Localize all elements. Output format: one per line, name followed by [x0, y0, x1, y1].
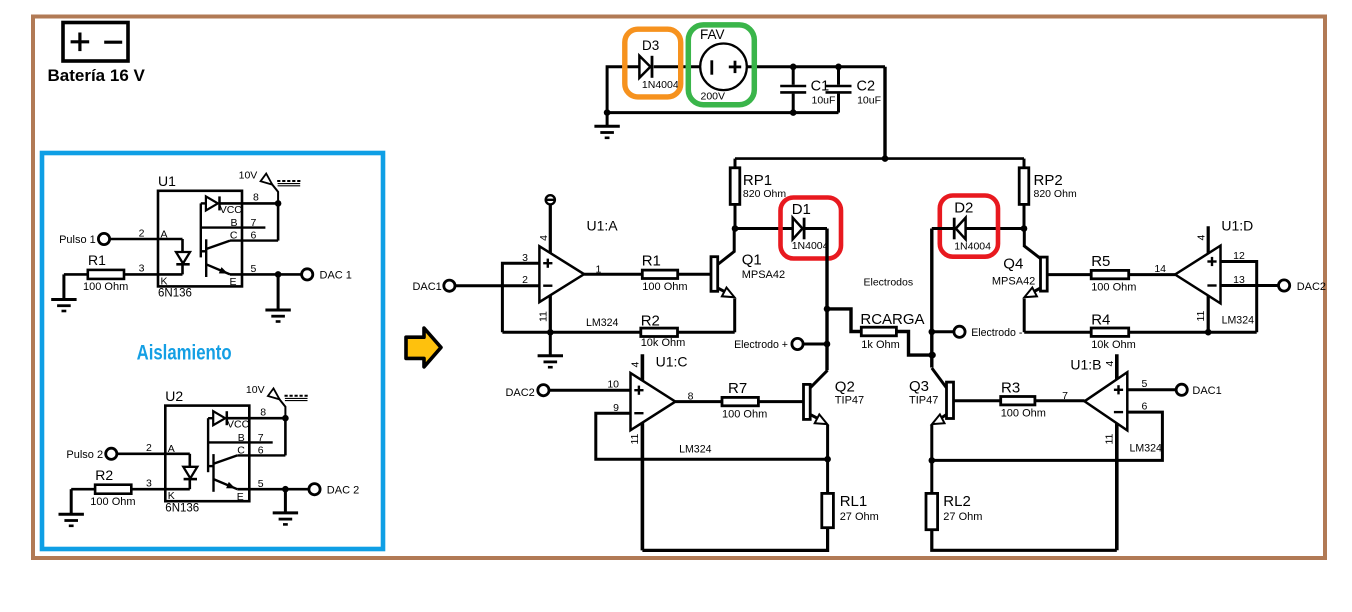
wire Q1 collector up: [733, 229, 736, 253]
svg-text:7: 7: [1062, 390, 1068, 402]
svg-text:8: 8: [260, 407, 266, 419]
10V supply flag U1: [261, 174, 273, 185]
wire Q4 to R5: [1047, 273, 1091, 276]
svg-text:C2: C2: [857, 78, 876, 94]
svg-text:U1:A: U1:A: [587, 218, 619, 234]
FAV plus mark: [729, 61, 741, 73]
ground supply: [594, 113, 619, 138]
svg-text:A: A: [168, 443, 175, 455]
svg-text:100 Ohm: 100 Ohm: [90, 496, 135, 508]
svg-text:A: A: [161, 228, 168, 240]
junction pin5 U1: [275, 271, 282, 278]
svg-text:U1: U1: [158, 173, 176, 189]
svg-text:Pulso 2: Pulso 2: [66, 449, 103, 461]
svg-text:1N4004: 1N4004: [792, 240, 829, 252]
op-amp U1:D: [1175, 246, 1220, 304]
emitter arrow U2: [226, 482, 235, 489]
wire 10V to pin8 U2: [279, 398, 286, 418]
node Electrodo +: [792, 338, 803, 349]
wire power pins U1:D: [1207, 226, 1210, 332]
wire inner left U1: [200, 203, 202, 257]
wire R2 to Q1 emitter: [678, 331, 735, 334]
arrow marker: [406, 328, 441, 367]
double line 10V U1: [278, 184, 301, 186]
resistor RP2: [1019, 168, 1029, 205]
double line 10V U2: [285, 398, 308, 400]
wire to D1: [735, 227, 793, 230]
resistor RL2: [926, 493, 938, 529]
junction U1:A ground: [547, 329, 554, 336]
highlight box FAV: [688, 25, 754, 105]
svg-text:7: 7: [258, 432, 264, 444]
wire R2 to ground: [71, 488, 95, 491]
svg-text:10uF: 10uF: [857, 95, 881, 107]
wire power pins U1:C: [641, 354, 645, 550]
wire supply bottom: [607, 111, 838, 114]
svg-text:820 Ohm: 820 Ohm: [743, 188, 786, 200]
wire feedback U1:C: [596, 413, 828, 459]
wire Q2 emitter down: [826, 425, 829, 459]
svg-text:DAC1: DAC1: [412, 281, 441, 293]
Q2 emitter arrow: [815, 414, 828, 424]
svg-text:100 Ohm: 100 Ohm: [722, 409, 767, 421]
wire DAC2 to pin10: [549, 389, 631, 392]
svg-text:3: 3: [146, 478, 152, 490]
wire R3 to U1:B: [1035, 399, 1085, 402]
wire supply left: [607, 67, 639, 113]
wire pin6 U2: [237, 454, 285, 456]
wire top rail: [735, 157, 1024, 160]
svg-text:100 Ohm: 100 Ohm: [1001, 408, 1046, 420]
junction U1:D pin11: [1205, 329, 1212, 336]
junction rail: [882, 155, 889, 162]
node DAC2 output: [1279, 280, 1290, 291]
U1:A + input: [543, 259, 552, 268]
svg-text:8: 8: [253, 192, 259, 204]
svg-text:C: C: [230, 230, 238, 242]
svg-text:LM324: LM324: [1130, 442, 1162, 454]
phototransistor emitter U2: [214, 479, 238, 489]
svg-text:27 Ohm: 27 Ohm: [840, 511, 879, 523]
svg-text:K: K: [168, 490, 175, 502]
U1:D + input: [1207, 257, 1216, 266]
wire pin2 U1: [110, 238, 183, 241]
ground DAC 1: [265, 274, 290, 321]
wire R1 to Q1: [678, 273, 711, 276]
wire Q4 collector up: [1023, 229, 1026, 248]
svg-text:3: 3: [522, 252, 528, 264]
svg-text:6N136: 6N136: [165, 502, 199, 514]
svg-text:U1:C: U1:C: [656, 353, 688, 369]
resistor R7: [722, 397, 758, 405]
svg-text:Q2: Q2: [835, 379, 855, 396]
transistor Q3 base bar: [947, 382, 954, 418]
battery - terminal: [104, 41, 122, 44]
svg-text:TIP47: TIP47: [835, 395, 864, 407]
svg-text:Aislamiento: Aislamiento: [137, 341, 232, 364]
junction Q2 emitter: [824, 456, 831, 463]
svg-text:Batería 16 V: Batería 16 V: [48, 66, 146, 85]
Q4 collector: [1024, 246, 1040, 259]
node Electrodo -: [954, 326, 965, 337]
wire Q3 to R3: [954, 399, 1001, 402]
resistor R5: [1091, 270, 1129, 278]
svg-text:4: 4: [630, 362, 642, 368]
wire to vcc diode U2: [208, 417, 213, 419]
junction supply ground: [604, 109, 611, 116]
transistor Q2 base bar: [804, 384, 811, 419]
junction Electrodo-: [929, 329, 936, 336]
svg-text:200V: 200V: [701, 91, 726, 103]
FAV minus mark: [710, 60, 713, 74]
wire LED anode U2: [189, 454, 192, 467]
battery symbol box: [63, 23, 128, 62]
Q1 emitter arrow: [722, 288, 735, 298]
svg-text:100 Ohm: 100 Ohm: [642, 281, 687, 293]
svg-text:10V: 10V: [246, 384, 265, 396]
wire Q4 emitter to R4: [1024, 331, 1091, 334]
wire DAC1 to pin2: [455, 284, 539, 287]
op-amp U1:B: [1085, 372, 1128, 430]
U1:C + input: [634, 386, 643, 395]
wire bottom rail left: [642, 528, 827, 551]
capacitor C1: [780, 67, 806, 113]
svg-text:11: 11: [1195, 310, 1207, 321]
svg-text:4: 4: [1195, 235, 1207, 241]
junction C1 top: [790, 64, 797, 71]
battery + terminal: [71, 33, 90, 52]
svg-text:10uF: 10uF: [812, 95, 836, 107]
svg-text:E: E: [237, 491, 244, 503]
svg-text:10k Ohm: 10k Ohm: [1091, 339, 1136, 351]
node DAC1 output: [1176, 384, 1187, 395]
svg-text:6: 6: [251, 230, 257, 242]
wire pin3 U1: [124, 273, 183, 276]
Q3 emitter arrow: [932, 414, 945, 424]
wire R7 to Q2: [758, 400, 803, 403]
svg-text:12: 12: [1233, 250, 1245, 262]
op-amp U1:A: [539, 246, 584, 302]
wire pin6 feedback U1:B: [932, 412, 1163, 460]
svg-text:7: 7: [251, 217, 257, 229]
highlight box D2: [940, 196, 998, 257]
wire pin13 U1:D: [1221, 284, 1279, 287]
diode VCC U2: [213, 411, 227, 425]
junction RCARGA to Q3: [929, 352, 936, 359]
wire pin7 U2: [208, 441, 273, 443]
wire LED cathode U2: [189, 479, 192, 489]
svg-text:13: 13: [1233, 274, 1245, 286]
diode VCC U1: [206, 196, 220, 210]
wire D1 out: [805, 227, 827, 230]
svg-text:11: 11: [1104, 433, 1116, 444]
Q2 emitter: [810, 415, 824, 422]
U1:D - input: [1207, 284, 1216, 286]
wire to RL2: [930, 460, 933, 493]
svg-text:9: 9: [613, 402, 619, 414]
junction C1 bottom: [790, 109, 797, 116]
resistor RL1: [822, 493, 834, 527]
svg-text:27 Ohm: 27 Ohm: [943, 511, 982, 523]
svg-text:U2: U2: [165, 388, 183, 404]
svg-text:RP1: RP1: [743, 172, 772, 189]
wire D3 to FAV: [654, 65, 702, 68]
diode D3: [639, 56, 652, 78]
wire D2 to RP2: [955, 227, 1024, 230]
svg-text:5: 5: [258, 478, 264, 490]
svg-text:10V: 10V: [239, 169, 258, 181]
svg-text:U1:D: U1:D: [1221, 218, 1253, 234]
svg-text:RL2: RL2: [943, 493, 971, 510]
emitter arrow U1: [219, 267, 228, 274]
svg-text:U1:B: U1:B: [1070, 357, 1101, 373]
junction pin5 U2: [282, 486, 289, 493]
svg-text:6N136: 6N136: [158, 288, 192, 300]
ground U1:A: [538, 332, 563, 367]
diode D1: [793, 218, 804, 240]
wire LED anode U1: [181, 239, 184, 252]
svg-text:Pulso 1: Pulso 1: [59, 234, 96, 246]
Q3 collector: [932, 368, 947, 388]
wire Q1 emitter down: [733, 299, 736, 333]
svg-text:2: 2: [139, 227, 145, 239]
svg-text:B: B: [230, 217, 237, 229]
source FAV circle: [700, 44, 747, 91]
svg-text:14: 14: [1154, 263, 1166, 275]
svg-text:100 Ohm: 100 Ohm: [83, 281, 128, 293]
phototransistor collector U2: [214, 455, 238, 463]
Q4 emitter: [1028, 288, 1041, 295]
wire RP2 to junction: [1023, 204, 1026, 228]
aislamiento boundary box: [42, 153, 383, 549]
wire Q3 emitter down: [930, 425, 933, 460]
wire Electrodo-: [932, 330, 954, 333]
highlight box D3: [625, 29, 681, 97]
junction Q1 collector: [732, 225, 739, 232]
resistor R1: [88, 270, 124, 279]
wire base connect U2: [208, 465, 213, 467]
ground R1: [51, 274, 76, 311]
wire R5 to U1:D: [1129, 273, 1175, 276]
svg-text:4: 4: [538, 235, 550, 241]
Q1 emitter: [718, 288, 731, 295]
svg-text:11: 11: [537, 311, 549, 322]
svg-text:Electrodo -: Electrodo -: [971, 327, 1023, 339]
svg-text:5: 5: [1142, 378, 1148, 390]
resistor R1 main: [642, 270, 677, 278]
wire to RL1: [826, 459, 829, 493]
wire pin8 U2: [227, 417, 285, 420]
svg-text:MPSA42: MPSA42: [742, 269, 785, 281]
U1:C - input: [634, 412, 643, 414]
svg-text:Q4: Q4: [1003, 256, 1023, 273]
svg-text:2: 2: [146, 442, 152, 454]
phototransistor emitter U1: [206, 264, 230, 274]
wire RCARGA right: [896, 332, 932, 356]
junction Q4 collector: [1021, 225, 1028, 232]
wire rail to RP1: [734, 159, 737, 168]
wire pin3 feedback U1:A: [502, 263, 539, 332]
svg-text:Q3: Q3: [909, 378, 929, 395]
svg-text:RP2: RP2: [1034, 172, 1063, 189]
U1:B - input: [1114, 411, 1123, 413]
wire RP1 to junction: [734, 204, 737, 228]
svg-text:6: 6: [1142, 401, 1148, 413]
node Pulso 1: [98, 233, 109, 244]
wire rail to RP2: [1023, 159, 1026, 168]
wire 10V to pin8 U1: [271, 183, 278, 203]
transistor Q1 base bar: [711, 257, 718, 292]
Q2 collector: [810, 370, 827, 388]
svg-text:2: 2: [522, 274, 528, 286]
svg-text:820 Ohm: 820 Ohm: [1034, 188, 1077, 200]
svg-text:R1: R1: [88, 252, 106, 268]
junction RCARGA left: [824, 306, 831, 313]
svg-text:1N4004: 1N4004: [642, 79, 679, 91]
junction C2 top: [835, 64, 842, 71]
negative supply symbol U1:A: [546, 195, 555, 204]
ground R2: [59, 489, 84, 526]
resistor R2 main: [641, 328, 678, 336]
node DAC 1: [302, 269, 313, 280]
wire pin12 feedback U1:D: [1221, 262, 1257, 333]
svg-text:LM324: LM324: [1222, 315, 1254, 327]
wire inner left U2: [207, 418, 209, 472]
svg-text:TIP47: TIP47: [909, 395, 938, 407]
phototransistor base bar U1: [205, 239, 207, 277]
U1:B + input: [1114, 385, 1123, 394]
svg-text:D2: D2: [954, 199, 973, 216]
svg-text:R3: R3: [1001, 380, 1020, 397]
wire pin8 to pin6 U1: [277, 203, 280, 240]
wire Electrodo+: [803, 343, 827, 346]
capacitor C2: [826, 67, 852, 113]
junction pin8 U1: [275, 200, 282, 207]
wire pin3 U2: [131, 488, 190, 491]
wire Q4 emitter down: [1023, 299, 1026, 333]
wire pin8 U1: [220, 202, 278, 205]
svg-text:10k Ohm: 10k Ohm: [641, 337, 686, 349]
svg-text:R7: R7: [728, 380, 747, 397]
resistor R3: [1001, 397, 1035, 405]
transistor Q4 base bar: [1041, 257, 1048, 291]
resistor RCARGA: [861, 327, 896, 336]
LED diode U1: [176, 252, 190, 264]
wire RCARGA left: [827, 309, 861, 332]
wire D2 out: [932, 227, 953, 230]
wire LED cathode U1: [181, 264, 184, 274]
dashed line 10V U2: [285, 395, 308, 397]
opto U1 body: [158, 191, 242, 287]
svg-text:LM324: LM324: [679, 443, 711, 455]
wire pin8 to pin6 U2: [284, 418, 287, 455]
svg-text:100 Ohm: 100 Ohm: [1091, 282, 1136, 294]
wire bottom rail right: [932, 530, 1117, 551]
svg-text:VCC: VCC: [227, 419, 250, 431]
Q3 emitter: [935, 415, 946, 422]
phototransistor collector U1: [206, 241, 230, 249]
wire pin8 U1:C: [675, 400, 722, 403]
svg-text:4: 4: [1104, 361, 1116, 367]
svg-text:8: 8: [688, 391, 694, 403]
resistor R2: [95, 485, 131, 494]
svg-text:MPSA42: MPSA42: [992, 276, 1035, 288]
U1:A - input: [543, 285, 552, 287]
wire feedback bottom U1:A: [502, 331, 640, 334]
svg-text:3: 3: [139, 263, 145, 275]
wire D2 down to Q3: [930, 229, 933, 368]
svg-text:LM324: LM324: [586, 317, 618, 329]
wire to vcc diode U1: [201, 202, 206, 204]
wire pin1 U1:A: [584, 273, 642, 276]
junction Electrodo+: [824, 341, 831, 348]
svg-text:D1: D1: [792, 201, 811, 218]
wire pin2 U2: [117, 452, 190, 455]
op-amp U1:C: [631, 373, 676, 430]
svg-text:RCARGA: RCARGA: [860, 311, 924, 328]
junction pin8 U2: [282, 415, 289, 422]
phototransistor base bar U2: [212, 454, 214, 492]
svg-text:Electrodo +: Electrodo +: [734, 339, 788, 351]
node Pulso 2: [106, 448, 117, 459]
diode D2: [954, 218, 965, 240]
wire R1 to ground: [64, 273, 88, 276]
svg-text:R1: R1: [642, 252, 661, 269]
svg-text:5: 5: [251, 263, 257, 275]
resistor R4: [1091, 328, 1129, 336]
wire FAV to rail: [747, 65, 885, 68]
svg-text:DAC1: DAC1: [1192, 385, 1221, 397]
node DAC 2: [309, 484, 320, 495]
wire power pins U1:B: [1115, 354, 1119, 550]
svg-text:6: 6: [258, 444, 264, 456]
svg-text:Q1: Q1: [742, 251, 762, 268]
node DAC1 input: [444, 280, 455, 291]
svg-text:DAC2: DAC2: [1297, 281, 1326, 293]
opto U2 body: [165, 406, 249, 502]
10V supply flag U2: [268, 388, 280, 399]
svg-text:1k Ohm: 1k Ohm: [861, 339, 900, 351]
svg-text:1: 1: [595, 263, 601, 275]
svg-text:10: 10: [607, 378, 619, 390]
svg-text:R5: R5: [1091, 253, 1110, 270]
svg-text:FAV: FAV: [700, 27, 725, 42]
LED diode U2: [183, 467, 197, 479]
svg-text:DAC 1: DAC 1: [320, 270, 352, 282]
svg-text:C: C: [237, 444, 245, 456]
svg-text:1N4004: 1N4004: [954, 241, 991, 253]
ground DAC 2: [273, 489, 298, 524]
svg-text:DAC 2: DAC 2: [327, 484, 359, 496]
junction Q3 emitter: [929, 457, 936, 464]
dashed line 10V U1: [277, 180, 300, 182]
wire supply drop: [883, 67, 886, 159]
Q1 collector: [718, 252, 735, 265]
wire pin5 U2: [237, 488, 309, 491]
svg-text:Electrodos: Electrodos: [864, 277, 914, 289]
svg-text:11: 11: [629, 433, 641, 444]
wire base connect U1: [201, 250, 206, 252]
wire R4 to feedback: [1129, 331, 1257, 334]
junction RCARGA right vertical: [929, 352, 936, 359]
svg-text:R4: R4: [1091, 311, 1110, 328]
wire pin5 U1: [230, 273, 302, 276]
svg-text:D3: D3: [642, 38, 659, 53]
wire pin6 U1: [230, 239, 278, 241]
wire power pins U1:A: [549, 204, 552, 332]
Q4 emitter arrow: [1024, 288, 1037, 298]
svg-text:VCC: VCC: [220, 204, 243, 216]
